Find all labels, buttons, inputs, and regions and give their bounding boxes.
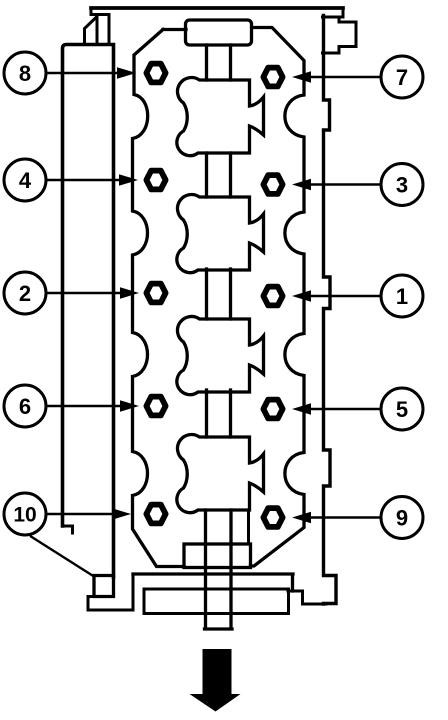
callout circle 7 (381, 56, 423, 98)
bolt 2 hex (146, 284, 165, 303)
callout circle 3 (381, 164, 423, 206)
svg-text:9: 9 (396, 506, 408, 531)
neck 1-2 (207, 153, 231, 197)
bolt 5 hex (263, 400, 282, 419)
arrowhead 5 (292, 403, 311, 415)
top-left mounting tab (85, 8, 110, 44)
callout circle 5 (381, 388, 423, 430)
arrowhead 8 (117, 67, 136, 79)
callout circle 1 (381, 275, 423, 317)
left rail foot block (94, 576, 114, 597)
svg-text:7: 7 (396, 65, 408, 90)
bolt 3 hex (263, 175, 282, 194)
callout circle 9 (381, 497, 423, 539)
bolt 9 hex (263, 508, 282, 527)
chamber4-to-tab right connector (247, 510, 250, 544)
arrow 8 (47, 72, 118, 74)
bolt 7 hex (263, 68, 282, 87)
bottom shaft (205, 510, 233, 629)
bottom-left lower bracket (88, 574, 133, 610)
callout circle 6 (4, 385, 46, 427)
neck top (tab to chamber 1) (207, 45, 231, 80)
arrow 1 (310, 295, 381, 297)
arrow 10 (47, 513, 113, 515)
arrowhead 6 (120, 400, 139, 412)
svg-text:10: 10 (13, 504, 36, 527)
svg-text:2: 2 (19, 281, 31, 306)
arrowhead 1 (292, 290, 311, 302)
bottom-right bracket (288, 574, 326, 604)
combustion chamber 4 (177, 434, 264, 512)
bolt 4 hex (146, 171, 165, 190)
callout circle 4 (4, 159, 46, 201)
bolt 10 hex (146, 505, 165, 524)
bottom plate top line (133, 574, 293, 591)
arrowhead 9 (292, 512, 311, 524)
arrowhead 10 (112, 508, 131, 520)
bottom bar (144, 589, 289, 614)
arrow 2 (47, 292, 121, 294)
arrow 7 (310, 76, 381, 78)
front direction arrow (190, 649, 241, 712)
bolt 8 hex (146, 64, 165, 83)
left gauge rail (63, 45, 114, 578)
combustion chamber 2 (177, 194, 264, 272)
combustion chamber 1 (177, 77, 264, 155)
arrowhead 3 (292, 179, 311, 191)
bolt 1 hex (263, 287, 282, 306)
callout circle 8 (4, 52, 46, 94)
leader line circle 10 to foot (31, 537, 94, 577)
top cam tab (186, 20, 252, 45)
arrow 6 (47, 405, 121, 407)
svg-text:4: 4 (19, 168, 32, 193)
top-right stepped tab (323, 8, 357, 53)
svg-text:5: 5 (396, 397, 408, 422)
callout circle 10 (4, 493, 46, 535)
arrow 9 (310, 516, 381, 518)
svg-text:6: 6 (19, 394, 31, 419)
cylinder head outline (133, 28, 305, 567)
bottom tab (184, 544, 251, 568)
svg-text:8: 8 (19, 61, 31, 86)
arrowhead 7 (292, 71, 311, 83)
neck 2-3 (207, 269, 231, 319)
bolt 6 hex (146, 397, 165, 416)
arrow 5 (310, 408, 381, 410)
neck 3-4 (207, 390, 231, 437)
callout circle 2 (4, 272, 46, 314)
combustion chamber 3 (177, 316, 264, 394)
right rail vertical line with jogs (324, 16, 337, 605)
svg-text:1: 1 (396, 284, 408, 309)
arrowhead 4 (119, 174, 138, 186)
arrow 4 (47, 179, 120, 181)
svg-text:3: 3 (396, 173, 408, 198)
arrowhead 2 (120, 287, 139, 299)
left rail bottom step (63, 526, 73, 533)
arrow 3 (310, 183, 381, 185)
top edge line (91, 6, 343, 10)
